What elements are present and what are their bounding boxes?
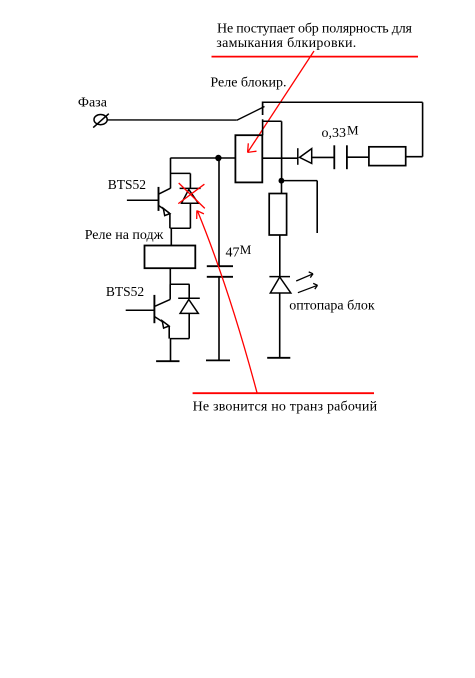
wire: relay K2 to Q2 collector [169,268,171,284]
svg-text:47: 47 [226,246,240,261]
red X over diode D1 [178,183,205,208]
svg-text:М: М [347,123,359,138]
wire: Q2 emitter down [168,326,170,339]
switch SW1 contact tick [262,102,264,116]
wire: dangling vertical [316,181,318,233]
diode D1 [180,188,201,203]
wire: Q2 top horizontal [170,283,190,285]
wire: Q1 emitter to relay K2 [170,228,172,245]
red underline of note [212,56,419,58]
diode D1 bottom lead [189,203,191,228]
diode D2 bottom lead [188,313,190,338]
transistor Q2 [126,295,171,328]
wire: diode D4 to capacitor C1 [312,156,335,158]
red underline bottom note [193,392,374,394]
diode D2 [178,298,200,313]
svg-text:Не звонится но транз рабочий: Не звонится но транз рабочий [193,399,378,414]
LED emission arrow 1 [296,272,313,281]
svg-text:Фаза: Фаза [78,96,108,111]
wire: Q2 emitter to ground [170,339,172,362]
wire: resistor R2 to LED D3 [279,235,281,277]
node B junction dot [279,178,285,184]
svg-text:о,33: о,33 [322,126,347,141]
phase terminal symbol [93,114,109,128]
diode D4 [298,148,312,165]
wire: top branch to diode D1 [171,172,191,174]
wire: node B to resistor R2 [281,181,283,194]
red arrow to relay K1 [248,51,314,152]
svg-text:BTS52: BTS52 [108,177,146,192]
wire: Q1 emitter bottom horizontal [170,227,190,229]
capacitor C3 [207,266,233,277]
wire: Q2 collector vertical [169,284,171,299]
wire: capacitor C1 to resistor R1 [347,156,369,158]
wire: node B branch right [281,180,317,182]
wire: capacitor C3 to ground [218,277,220,361]
svg-text:оптопара блок: оптопара блок [289,298,375,313]
wire: LED D3 to ground [279,293,281,358]
diode D1 top lead [189,173,191,188]
resistor R1 [369,147,406,166]
wire: top horizontal [263,101,423,103]
svg-text:замыкания блкировки.: замыкания блкировки. [216,36,356,51]
wire: relay K1 to diode D4 [262,157,298,159]
wire: branch horizontal to node B drop [263,120,282,122]
resistor R2 [269,194,286,236]
relay K2 box [145,246,196,269]
wire: right drop [422,102,424,156]
svg-text:Реле на подж: Реле на подж [85,228,164,243]
wire: junction to relay K1 left lead [170,157,235,159]
wire: vertical drop to node B [281,121,283,180]
relay K1 box [235,135,262,182]
wire: Q2 emitter bottom horizontal [170,338,189,340]
LED emission arrow 2 [298,283,318,292]
diode D2 top lead [188,284,190,298]
capacitor C1 [334,145,347,169]
wire: phase to switch [107,119,237,121]
wire: switch branch stub down [262,119,264,135]
svg-text:BTS52: BTS52 [106,284,144,299]
svg-text:М: М [240,242,252,257]
label: 47М [226,242,252,261]
svg-text:Не поступает обр полярность дл: Не поступает обр полярность для [217,21,413,36]
transistor Q1 [127,187,171,216]
switch SW1 arm [237,107,265,121]
node A junction dot [215,155,221,161]
LED D3 [269,277,290,293]
ground middle [206,359,230,361]
label: о,33М [322,123,360,141]
wire: collector vertical Q1 [170,158,172,189]
red arrow from bottom note to Q1 [197,210,257,392]
wire: middle vertical to capacitor C3 [218,158,220,266]
ground left [156,360,179,362]
svg-text:Реле блокир.: Реле блокир. [210,76,286,91]
wire: resistor R1 to right drop [406,156,423,158]
wire: Q1 emitter down [169,214,171,229]
ground right [267,357,290,359]
